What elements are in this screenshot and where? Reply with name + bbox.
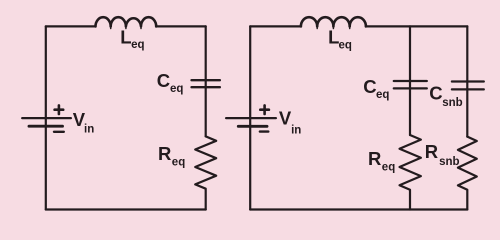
svg-text:snb: snb [442,97,462,109]
svg-text:eq: eq [131,39,144,51]
svg-text:eq: eq [376,89,389,101]
svg-text:eq: eq [172,156,185,168]
svg-text:C: C [429,82,442,103]
svg-text:C: C [363,76,376,97]
svg-text:C: C [157,70,170,91]
svg-text:in: in [291,124,301,136]
svg-text:eq: eq [382,162,395,174]
svg-text:eq: eq [170,83,183,95]
svg-text:R: R [425,141,438,162]
svg-text:V: V [279,108,292,129]
svg-text:snb: snb [439,156,459,168]
svg-text:R: R [158,143,171,164]
svg-text:R: R [368,148,381,169]
svg-text:L: L [120,26,131,47]
svg-text:eq: eq [339,39,352,51]
svg-text:in: in [84,124,94,136]
